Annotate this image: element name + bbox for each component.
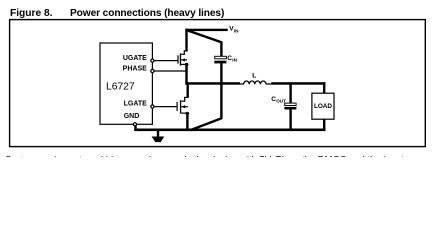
heavy wire Cout top lead	[289, 84, 291, 103]
node junction dot at Q2 source	[186, 112, 190, 116]
heavy wire Cout bottom lead	[289, 110, 291, 131]
heavy wire Cin bottom lead down across phase rail	[220, 63, 222, 119]
svg-text:IN: IN	[232, 58, 237, 63]
heavy wire output rail to LOAD corner	[271, 82, 325, 85]
pin PHASE circle	[151, 69, 154, 72]
heavy wire Q2 source to ground rail	[186, 113, 188, 131]
node phase junction dot at Q1 source	[185, 63, 189, 67]
IC U1 L6727 box	[100, 43, 152, 124]
heavy wire Cin top lead	[220, 41, 222, 57]
svg-text:L: L	[252, 73, 256, 80]
Vin node: heavy wire to VIN label	[185, 29, 227, 31]
pin UGATE circle	[151, 59, 154, 62]
wire inductor left lead (thin)	[240, 83, 244, 85]
svg-text:GND: GND	[124, 113, 140, 120]
heavy wire GND pin stub	[134, 125, 136, 130]
wire LGATE to Q2 gate (thin)	[154, 106, 177, 108]
heavy diagonal wire Cin return to ground rail	[190, 118, 222, 130]
transistor Q2 low-side MOSFET	[177, 97, 189, 113]
heavy wire Vin vertical to Q1 drain	[185, 29, 187, 52]
heavy wire phase rail to inductor	[185, 82, 240, 85]
svg-text:L6727: L6727	[106, 82, 135, 93]
svg-text:LGATE: LGATE	[124, 100, 148, 107]
ground symbol	[152, 131, 165, 143]
capacitor C OUT plates	[284, 103, 296, 109]
heavy wire phase rail to Q2 drain	[187, 84, 189, 97]
svg-text:OUT: OUT	[276, 99, 286, 104]
figure caption "Figure 8. Power connections (heavy lines)"	[10, 8, 224, 19]
svg-text:Figure 8.: Figure 8.	[10, 8, 53, 19]
svg-text:Systems using external bias ca: Systems using external bias can also sup…	[5, 155, 404, 157]
figure frame	[10, 20, 426, 147]
heavy wire LOAD bottom lead	[323, 119, 325, 131]
capacitor C IN plates	[214, 56, 226, 63]
pin LGATE circle	[151, 105, 154, 108]
heavy wire ground rail	[134, 129, 325, 132]
svg-text:Power connections (heavy lines: Power connections (heavy lines)	[70, 8, 224, 19]
heavy diagonal wire Vin to Cin	[186, 30, 221, 42]
label COUT	[271, 96, 286, 104]
wire PHASE to phase node (thin)	[154, 70, 188, 72]
inductor L	[244, 81, 266, 84]
svg-text:PHASE: PHASE	[123, 66, 147, 73]
transistor Q1 high-side MOSFET	[177, 51, 187, 66]
pin GND circle	[133, 123, 136, 126]
wire UGATE to Q1 gate (thin)	[154, 60, 178, 62]
label CIN	[227, 55, 237, 63]
svg-text:IN: IN	[234, 29, 239, 34]
heavy wire down to LOAD top	[323, 82, 325, 93]
heavy wire Q1 source to phase rail	[185, 64, 187, 84]
svg-text:UGATE: UGATE	[123, 55, 147, 62]
wire inductor right lead (thin)	[266, 83, 271, 85]
svg-text:LOAD: LOAD	[314, 103, 332, 110]
LOAD box	[312, 93, 334, 119]
label VIN	[229, 26, 239, 34]
